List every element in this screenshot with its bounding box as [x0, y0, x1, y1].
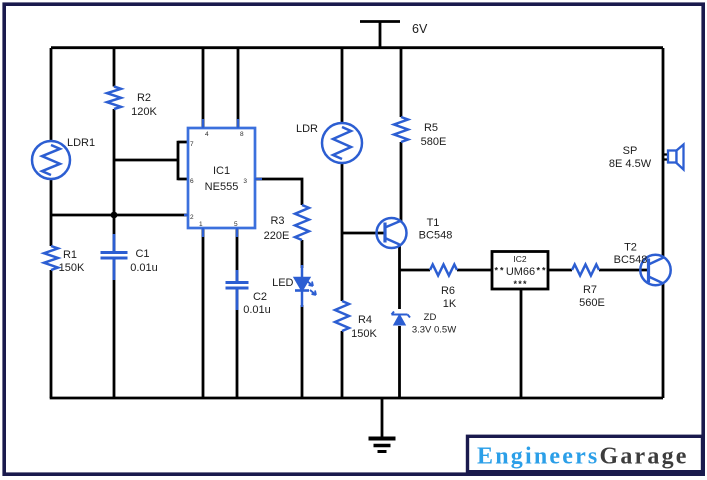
IC2 UM66 box [492, 252, 548, 290]
wire IC1 pin1 column to bottom rail [202, 228, 205, 398]
svg-text:R5: R5 [424, 122, 438, 134]
svg-text:T1: T1 [427, 217, 440, 229]
IC1 NE555 box [188, 128, 255, 228]
wire IC2 bottom pin to bottom rail [520, 289, 523, 398]
svg-text:1K: 1K [443, 298, 457, 310]
wire R2 column top [113, 48, 116, 87]
wire T1 base [342, 232, 385, 235]
wire R2 column middle (R2 to junction to C1) [113, 109, 116, 252]
wire right rail top (to T2 collector) [662, 48, 665, 258]
resistor R2 [107, 87, 121, 110]
LDR [322, 123, 362, 163]
LED [295, 265, 316, 307]
svg-text:150K: 150K [351, 328, 377, 340]
wire left rail LDR1 to R1 [50, 178, 53, 246]
transistor T2 [640, 255, 670, 285]
wire pin2 row [51, 214, 188, 217]
svg-text:BC548: BC548 [419, 230, 453, 242]
wire pin7/pin6 feed from R2 column [114, 159, 178, 162]
wire IC1 pin8 column [237, 48, 240, 128]
svg-text:R4: R4 [358, 314, 372, 326]
svg-text:R3: R3 [270, 215, 284, 227]
svg-text:UM66: UM66 [506, 266, 535, 278]
svg-text:7: 7 [190, 141, 194, 148]
svg-text:150K: 150K [59, 262, 85, 274]
svg-text:R7: R7 [583, 284, 597, 296]
transistor T1 [377, 218, 407, 248]
svg-text:SP: SP [623, 145, 638, 157]
ground [369, 398, 396, 452]
wire R6 leads [400, 269, 493, 272]
svg-text:560E: 560E [579, 297, 605, 309]
svg-text:EngineersGarage: EngineersGarage [477, 444, 689, 470]
svg-text:ZD: ZD [424, 312, 437, 323]
wire IC1 pin4 column [202, 48, 205, 128]
wire LED to bottom rail [301, 305, 304, 398]
svg-text:0.01u: 0.01u [243, 304, 271, 316]
svg-text:8E 4.5W: 8E 4.5W [609, 158, 652, 170]
EngineersGarage logo [468, 436, 703, 471]
wire right rail T2 emitter to bottom [662, 283, 665, 398]
wire R5 column top [400, 48, 403, 117]
svg-text:NE555: NE555 [205, 181, 239, 193]
wire zener to bottom rail [398, 326, 401, 398]
svg-text:0.01u: 0.01u [130, 262, 158, 274]
svg-text:120K: 120K [131, 106, 157, 118]
svg-text:6V: 6V [412, 22, 428, 36]
resistor R6 [430, 265, 457, 276]
wire C1 to bottom rail [113, 258, 116, 398]
resistor R7 [572, 265, 599, 276]
wire IC2 right lead to R7 [548, 269, 572, 272]
wire top rail [51, 46, 663, 49]
wire left rail upper (to LDR1) [50, 48, 53, 142]
svg-text:LDR1: LDR1 [67, 137, 95, 149]
wire C2 to bottom rail [236, 288, 239, 398]
wire left rail R1 to bottom [50, 270, 53, 398]
svg-text:***: *** [514, 279, 527, 289]
svg-text:C2: C2 [253, 291, 267, 303]
wire pin3 to R3 [255, 179, 302, 205]
capacitor C1 [101, 234, 128, 280]
svg-text:LDR: LDR [296, 123, 318, 135]
resistor R5 [394, 117, 408, 142]
svg-text:580E: 580E [421, 136, 447, 148]
svg-text:3: 3 [243, 178, 247, 185]
svg-text:2: 2 [190, 214, 194, 221]
svg-text:**: ** [495, 266, 504, 276]
zener diode ZD [392, 312, 411, 325]
wire speaker stubs [663, 155, 668, 160]
speaker SP [668, 145, 684, 170]
svg-text:8: 8 [240, 131, 244, 138]
svg-text:4: 4 [205, 131, 209, 138]
wire LDR2 bottom to R4 [341, 161, 344, 301]
svg-text:5: 5 [234, 221, 238, 228]
node junction R2/C1 with pin2 wire [111, 212, 118, 219]
svg-text:T2: T2 [624, 242, 637, 254]
battery 6V symbol [360, 22, 400, 49]
svg-text:LED: LED [272, 277, 293, 289]
svg-text:1: 1 [199, 221, 203, 228]
wire bottom rail [50, 397, 663, 400]
svg-text:**: ** [537, 266, 546, 276]
wire T1 emitter down through R6 junction [398, 244, 401, 309]
wire IC1 pin5 column to C2 [236, 228, 239, 282]
wire R7 to T2 base [599, 269, 649, 272]
resistor R1 [44, 246, 58, 270]
svg-text:IC1: IC1 [213, 165, 230, 177]
svg-text:IC2: IC2 [513, 254, 527, 264]
svg-text:R2: R2 [137, 92, 151, 104]
wire R4 to bottom rail [341, 331, 344, 398]
wire LDR2 column top [341, 48, 344, 125]
svg-text:220E: 220E [264, 230, 290, 242]
wire pin7-pin6 bracket [178, 141, 188, 181]
svg-text:R1: R1 [63, 249, 77, 261]
IC1 pin stubs [184, 119, 262, 237]
svg-text:C1: C1 [135, 248, 149, 260]
wire R5 to T1 collector [400, 142, 403, 221]
svg-text:6: 6 [190, 178, 194, 185]
svg-text:BC548: BC548 [614, 254, 648, 266]
svg-text:R6: R6 [441, 285, 455, 297]
resistor R4 [335, 301, 349, 331]
LDR1 [32, 141, 70, 179]
svg-text:3.3V 0.5W: 3.3V 0.5W [412, 325, 456, 336]
capacitor C2 [226, 270, 249, 310]
resistor R3 [295, 205, 309, 240]
wire R3 to LED [301, 240, 304, 268]
